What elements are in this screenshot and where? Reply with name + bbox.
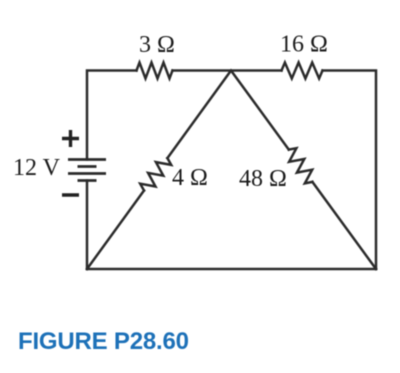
wire left diagonal upper	[167, 71, 231, 159]
wire left diagonal lower	[87, 191, 144, 270]
resistor R3 4ohm zigzag	[140, 158, 171, 190]
wire bottom	[87, 268, 376, 271]
svg-text:48 Ω: 48 Ω	[239, 166, 287, 192]
resistor R4 48ohm zigzag	[289, 148, 313, 183]
battery minus sign	[62, 193, 79, 196]
svg-text:4 Ω: 4 Ω	[172, 165, 208, 191]
wire left-bottom segment	[86, 181, 89, 270]
svg-text:12 V: 12 V	[13, 155, 61, 181]
svg-text:3 Ω: 3 Ω	[139, 32, 175, 58]
wire top-left segment	[87, 71, 137, 160]
battery plus sign	[62, 130, 79, 147]
figure caption	[18, 328, 189, 356]
wire top-right and right side	[323, 71, 377, 270]
battery B1 plates	[68, 160, 106, 181]
svg-text:16 Ω: 16 Ω	[280, 32, 328, 58]
wire right diagonal lower	[312, 182, 376, 269]
wire top-middle segment	[173, 69, 282, 72]
resistor R1 3ohm zigzag	[137, 63, 173, 79]
wire right diagonal upper	[231, 71, 289, 150]
resistor R2 16ohm zigzag	[282, 63, 323, 79]
